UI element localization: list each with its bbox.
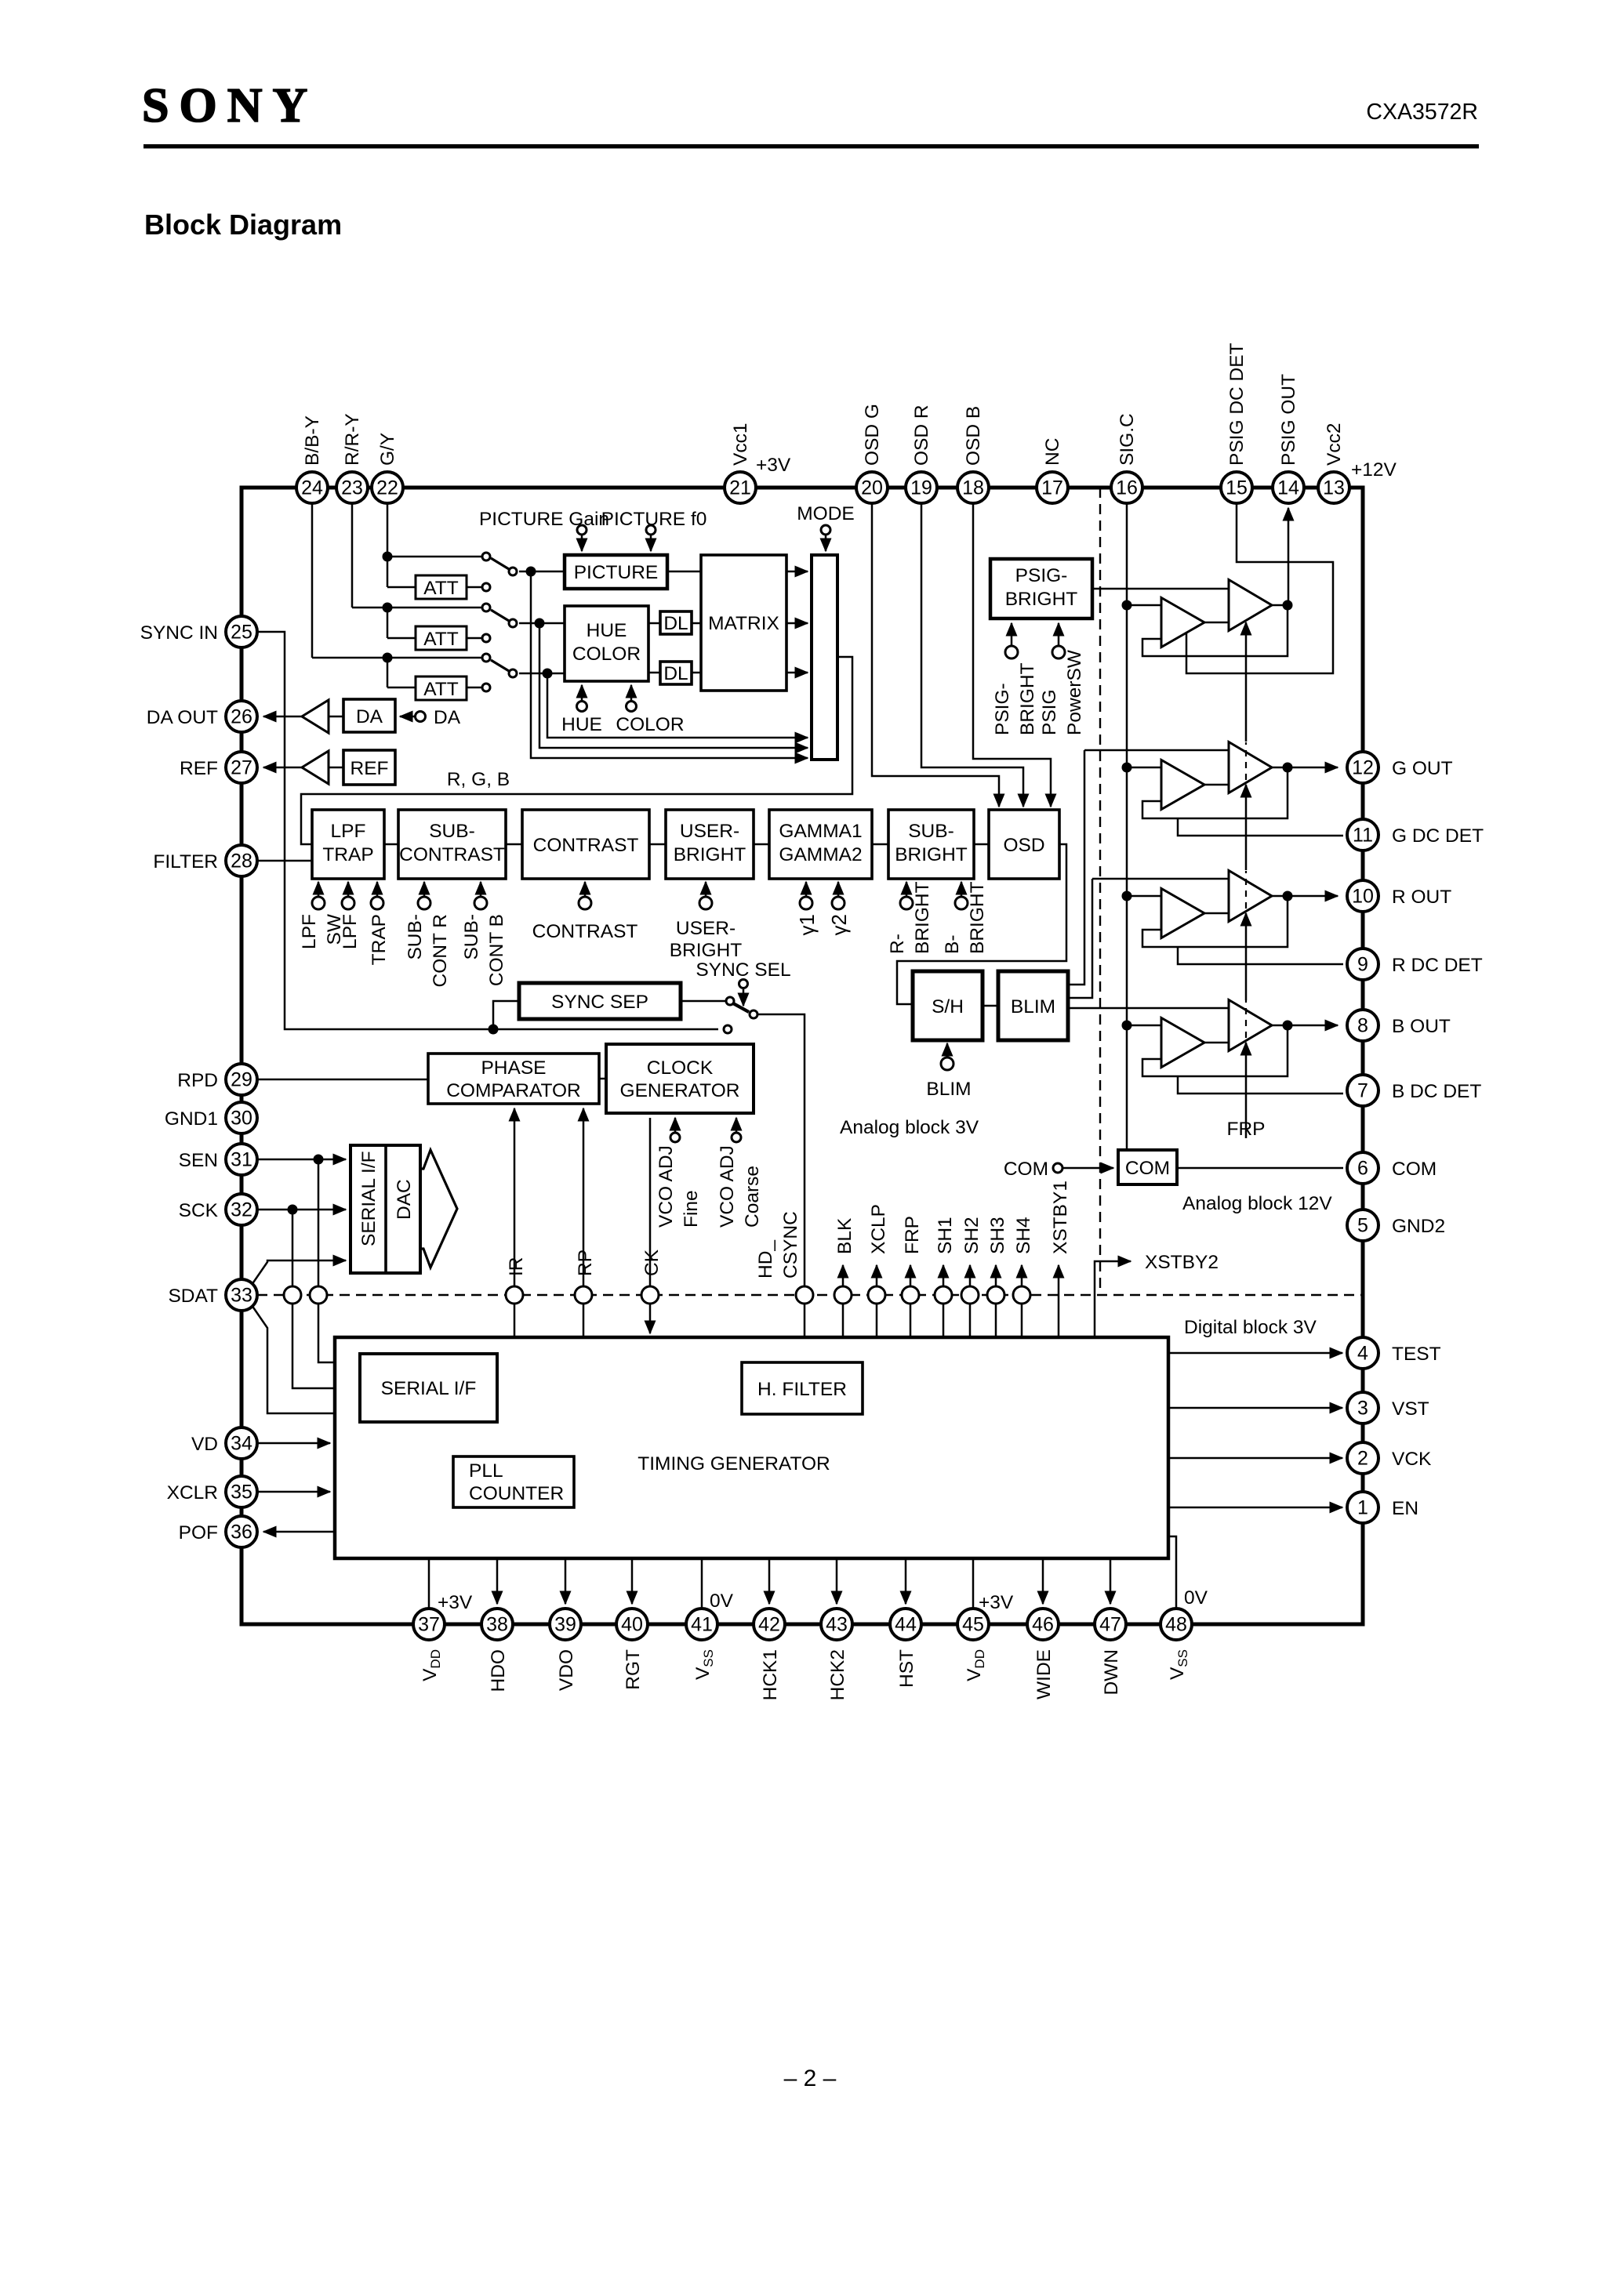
svg-text:37: 37 [418, 1614, 440, 1636]
svg-text:45: 45 [962, 1614, 984, 1636]
svg-text:GND1: GND1 [165, 1108, 218, 1130]
svg-text:PSIG OUT: PSIG OUT [1278, 374, 1299, 466]
svg-text:11: 11 [1353, 825, 1373, 847]
svg-text:3: 3 [1357, 1398, 1368, 1420]
svg-text:HUE: HUE [587, 620, 627, 641]
svg-text:TRAP: TRAP [322, 844, 373, 865]
svg-text:32: 32 [231, 1199, 252, 1221]
svg-text:CONTRAST: CONTRAST [532, 921, 638, 942]
svg-text:XSTBY2: XSTBY2 [1145, 1252, 1219, 1273]
svg-text:H. FILTER: H. FILTER [757, 1379, 847, 1400]
svg-text:BLK: BLK [834, 1217, 855, 1254]
svg-text:PHASE: PHASE [481, 1057, 546, 1079]
svg-text:DA: DA [434, 707, 461, 728]
svg-text:Analog block 3V: Analog block 3V [840, 1117, 979, 1138]
svg-text:DA: DA [356, 706, 383, 727]
svg-text:FRP: FRP [1227, 1119, 1266, 1140]
svg-text:47: 47 [1099, 1614, 1121, 1636]
svg-text:MODE: MODE [797, 503, 855, 524]
svg-text:CK: CK [641, 1249, 663, 1276]
svg-text:BRIGHT: BRIGHT [1005, 589, 1078, 610]
svg-text:SH1: SH1 [935, 1217, 956, 1254]
svg-text:SEN: SEN [179, 1150, 218, 1171]
svg-text:TRAP: TRAP [369, 914, 390, 965]
svg-text:20: 20 [861, 477, 883, 499]
svg-text:PICTURE Gain: PICTURE Gain [479, 509, 609, 530]
svg-text:SCK: SCK [179, 1200, 219, 1221]
svg-text:34: 34 [231, 1433, 252, 1455]
svg-text:FRP: FRP [902, 1216, 923, 1254]
svg-text:ATT: ATT [423, 578, 458, 599]
svg-text:CXA3572R: CXA3572R [1366, 100, 1478, 125]
svg-text:42: 42 [758, 1614, 780, 1636]
svg-text:USER-: USER- [676, 918, 736, 939]
svg-text:COMPARATOR: COMPARATOR [446, 1080, 581, 1101]
svg-text:RP: RP [575, 1250, 596, 1276]
svg-text:15: 15 [1226, 477, 1248, 499]
svg-text:FILTER: FILTER [153, 851, 218, 872]
svg-text:CONTRAST: CONTRAST [399, 844, 505, 865]
svg-text:41: 41 [691, 1614, 713, 1636]
svg-text:0V: 0V [710, 1591, 734, 1612]
svg-text:28: 28 [231, 851, 252, 872]
svg-text:+3V: +3V [756, 455, 791, 476]
svg-text:MATRIX: MATRIX [708, 613, 779, 634]
svg-text:SERIAL I/F: SERIAL I/F [381, 1378, 477, 1399]
svg-text:13: 13 [1323, 477, 1345, 499]
svg-text:25: 25 [231, 622, 252, 644]
svg-text:G/Y: G/Y [377, 433, 398, 466]
svg-text:WIDE: WIDE [1033, 1649, 1055, 1699]
svg-text:38: 38 [486, 1614, 508, 1636]
svg-text:B OUT: B OUT [1392, 1016, 1451, 1037]
svg-text:HCK1: HCK1 [760, 1649, 781, 1700]
svg-text:OSD G: OSD G [862, 404, 883, 466]
svg-text:S/H: S/H [932, 996, 964, 1017]
svg-text:SYNC SEP: SYNC SEP [551, 992, 648, 1013]
svg-text:8: 8 [1357, 1015, 1368, 1037]
svg-text:PLL: PLL [469, 1460, 503, 1482]
svg-text:7: 7 [1357, 1080, 1368, 1102]
svg-text:DWN: DWN [1101, 1649, 1122, 1696]
svg-text:XCLR: XCLR [167, 1482, 218, 1503]
svg-text:– 2 –: – 2 – [784, 2066, 837, 2091]
svg-text:DAC: DAC [394, 1179, 415, 1220]
svg-text:9: 9 [1357, 954, 1368, 976]
svg-text:ATT: ATT [423, 679, 458, 700]
svg-text:R, G, B: R, G, B [447, 769, 510, 790]
svg-text:G DC DET: G DC DET [1392, 825, 1484, 847]
svg-text:12: 12 [1352, 757, 1374, 779]
svg-text:B/B-Y: B/B-Y [302, 415, 323, 466]
svg-text:Block Diagram: Block Diagram [144, 209, 342, 241]
svg-text:COM: COM [1004, 1159, 1048, 1180]
svg-text:35: 35 [231, 1482, 252, 1503]
svg-text:10: 10 [1352, 886, 1374, 908]
svg-text:27: 27 [231, 757, 252, 779]
svg-text:SYNC IN: SYNC IN [140, 622, 218, 644]
svg-text:SDAT: SDAT [168, 1286, 218, 1307]
svg-text:14: 14 [1277, 477, 1299, 499]
svg-text:REF: REF [351, 758, 389, 779]
svg-text:CONTRAST: CONTRAST [533, 835, 639, 856]
svg-text:VCK: VCK [1392, 1449, 1432, 1470]
svg-text:21: 21 [729, 477, 751, 499]
svg-text:33: 33 [231, 1285, 252, 1307]
svg-text:OSD: OSD [1003, 835, 1044, 856]
svg-text:SUB-: SUB- [908, 821, 954, 842]
svg-text:BLIM: BLIM [1011, 996, 1055, 1017]
svg-text:REF: REF [180, 758, 218, 779]
svg-text:BRIGHT: BRIGHT [674, 844, 746, 865]
svg-text:R OUT: R OUT [1392, 887, 1451, 908]
svg-text:Vcc2: Vcc2 [1324, 423, 1345, 466]
svg-text:LPF: LPF [331, 821, 366, 842]
svg-text:4: 4 [1357, 1343, 1368, 1365]
svg-text:ATT: ATT [423, 629, 458, 650]
svg-text:IR: IR [506, 1257, 527, 1277]
svg-text:COLOR: COLOR [572, 644, 641, 665]
svg-text:PICTURE f0: PICTURE f0 [601, 509, 707, 530]
svg-text:CLOCK: CLOCK [647, 1057, 714, 1079]
svg-text:COLOR: COLOR [616, 714, 684, 735]
svg-text:COUNTER: COUNTER [469, 1483, 564, 1504]
svg-text:BLIM: BLIM [926, 1079, 971, 1100]
svg-text:31: 31 [231, 1149, 252, 1171]
svg-text:VDO: VDO [556, 1649, 577, 1691]
svg-text:LPF: LPF [340, 914, 361, 949]
svg-text:TEST: TEST [1392, 1344, 1441, 1365]
svg-text:SUB-: SUB- [429, 821, 475, 842]
svg-text:SONY: SONY [142, 79, 318, 132]
svg-text:SIG.C: SIG.C [1117, 413, 1138, 466]
svg-text:0V: 0V [1184, 1587, 1208, 1609]
svg-text:RPD: RPD [177, 1070, 218, 1091]
svg-text:TIMING GENERATOR: TIMING GENERATOR [637, 1453, 830, 1474]
svg-text:39: 39 [554, 1614, 576, 1636]
svg-text:+3V: +3V [438, 1592, 473, 1613]
svg-text:29: 29 [231, 1069, 252, 1091]
svg-text:DL: DL [663, 663, 688, 684]
svg-text:COM: COM [1392, 1159, 1437, 1180]
svg-text:GAMMA2: GAMMA2 [779, 844, 862, 865]
svg-text:46: 46 [1032, 1614, 1054, 1636]
svg-text:SH2: SH2 [961, 1217, 983, 1254]
svg-text:HDO: HDO [488, 1649, 509, 1692]
svg-text:VD: VD [191, 1434, 218, 1455]
svg-text:DA OUT: DA OUT [147, 707, 218, 728]
svg-text:BRIGHT: BRIGHT [895, 844, 968, 865]
svg-text:16: 16 [1116, 477, 1138, 499]
svg-text:R/R-Y: R/R-Y [342, 413, 363, 466]
svg-text:+3V: +3V [979, 1592, 1014, 1613]
svg-text:B DC DET: B DC DET [1392, 1081, 1481, 1102]
svg-text:Analog block 12V: Analog block 12V [1182, 1193, 1332, 1214]
svg-text:PSIG DC DET: PSIG DC DET [1226, 343, 1248, 466]
svg-text:GENERATOR: GENERATOR [620, 1080, 740, 1101]
svg-text:GAMMA1: GAMMA1 [779, 821, 862, 842]
svg-text:USER-: USER- [680, 821, 739, 842]
svg-text:PICTURE: PICTURE [574, 562, 659, 583]
svg-text:BRIGHT: BRIGHT [670, 940, 743, 961]
svg-text:18: 18 [962, 477, 984, 499]
svg-text:SH3: SH3 [987, 1217, 1008, 1254]
svg-text:HST: HST [896, 1649, 917, 1688]
svg-text:30: 30 [231, 1108, 252, 1130]
svg-text:5: 5 [1357, 1215, 1368, 1237]
svg-text:γ2: γ2 [827, 914, 851, 935]
svg-text:OSD B: OSD B [963, 406, 984, 466]
svg-text:Digital block 3V: Digital block 3V [1184, 1317, 1317, 1338]
svg-text:40: 40 [621, 1614, 643, 1636]
svg-text:48: 48 [1165, 1614, 1187, 1636]
svg-text:NC: NC [1042, 438, 1063, 466]
svg-text:24: 24 [301, 477, 323, 499]
svg-text:G OUT: G OUT [1392, 758, 1453, 779]
svg-text:RGT: RGT [623, 1649, 644, 1690]
svg-text:19: 19 [910, 477, 932, 499]
svg-text:26: 26 [231, 706, 252, 728]
svg-text:36: 36 [231, 1522, 252, 1543]
svg-text:EN: EN [1392, 1498, 1418, 1519]
svg-text:DL: DL [663, 613, 688, 634]
svg-text:PSIG-: PSIG- [1015, 565, 1068, 586]
svg-text:R DC DET: R DC DET [1392, 955, 1483, 976]
svg-text:2: 2 [1357, 1448, 1368, 1470]
svg-text:6: 6 [1357, 1158, 1368, 1180]
svg-text:VST: VST [1392, 1398, 1429, 1420]
svg-text:OSD R: OSD R [911, 404, 932, 466]
svg-text:γ1: γ1 [795, 914, 819, 935]
svg-text:22: 22 [376, 477, 398, 499]
svg-text:23: 23 [341, 477, 363, 499]
svg-text:1: 1 [1357, 1497, 1368, 1519]
svg-text:Vcc1: Vcc1 [730, 423, 751, 466]
svg-text:SH4: SH4 [1013, 1217, 1034, 1254]
svg-text:SYNC SEL: SYNC SEL [696, 959, 790, 981]
svg-text:44: 44 [895, 1614, 917, 1636]
svg-text:XCLP: XCLP [868, 1204, 889, 1254]
svg-text:COM: COM [1125, 1158, 1170, 1179]
svg-text:XSTBY1: XSTBY1 [1050, 1181, 1071, 1254]
svg-text:43: 43 [826, 1614, 848, 1636]
svg-text:POF: POF [179, 1522, 218, 1543]
svg-text:GND2: GND2 [1392, 1216, 1445, 1237]
svg-text:SERIAL I/F: SERIAL I/F [358, 1151, 380, 1246]
svg-text:HCK2: HCK2 [827, 1649, 848, 1700]
svg-text:+12V: +12V [1351, 459, 1397, 481]
svg-text:17: 17 [1041, 477, 1063, 499]
svg-text:HUE: HUE [561, 714, 602, 735]
